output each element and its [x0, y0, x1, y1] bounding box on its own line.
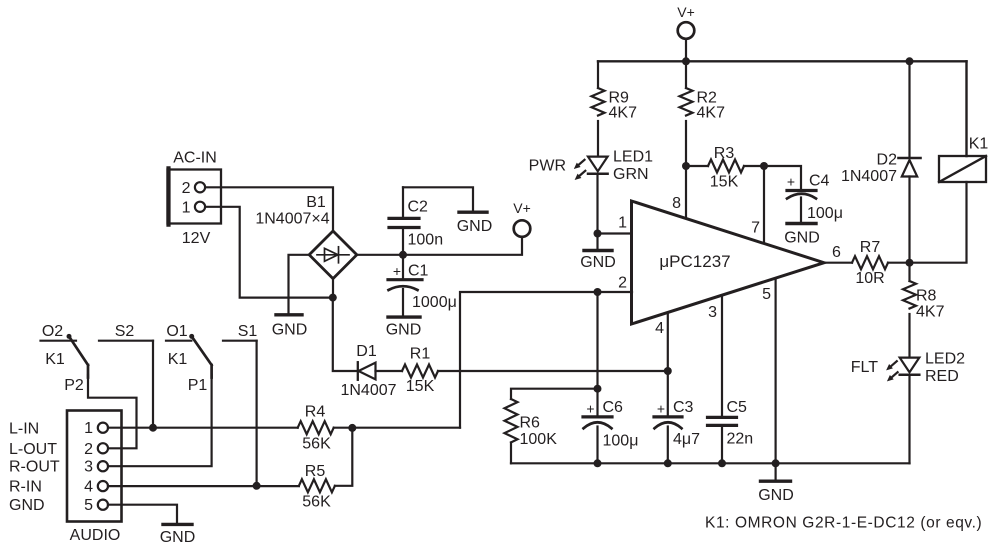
wire S2 down to L-IN line [152, 341, 154, 428]
svg-text:4: 4 [655, 320, 664, 337]
svg-text:LED2: LED2 [925, 351, 965, 368]
svg-text:R1: R1 [410, 346, 431, 363]
wire R2 to R3/pin8 junction [685, 121, 687, 166]
wire L-IN to R4 [108, 427, 298, 429]
svg-text:6: 6 [832, 244, 841, 261]
wire rail down to D2 [908, 61, 910, 157]
junction pin5/GND on rail [772, 459, 780, 467]
svg-text:C5: C5 [727, 399, 748, 416]
svg-text:B1: B1 [306, 194, 326, 211]
wire IC pin 3 down to C5 [721, 296, 723, 416]
svg-text:GND: GND [272, 322, 308, 339]
wire AC pin 2 to bridge top [205, 187, 333, 231]
svg-text:D2: D2 [877, 152, 898, 169]
svg-text:R-IN: R-IN [9, 479, 42, 496]
junction C1/C2 tap [399, 251, 407, 259]
ground below C1 [386, 289, 422, 339]
wire bridge left vertex to ground [289, 255, 310, 313]
svg-text:1N4007: 1N4007 [340, 382, 396, 399]
svg-text:O2: O2 [42, 323, 63, 340]
junction S2 on L-IN [149, 424, 157, 432]
svg-text:GRN: GRN [613, 166, 649, 183]
svg-text:15K: 15K [406, 378, 435, 395]
svg-text:5: 5 [84, 497, 93, 514]
svg-text:S2: S2 [115, 323, 135, 340]
junction C5 on rail [718, 459, 726, 467]
svg-text:+: + [657, 401, 665, 417]
wire top supply rail [598, 60, 967, 62]
junction R3/C4/pin7 [760, 162, 768, 170]
wire C2 top to ground stub [403, 187, 473, 210]
svg-text:10R: 10R [855, 270, 884, 287]
relay K1 coil [939, 136, 988, 183]
svg-text:C1: C1 [408, 263, 429, 280]
wire relay coil bottom to output junction [910, 182, 967, 263]
wire D1 to R1 [376, 370, 403, 372]
junction R2/R3/pin8 [682, 162, 690, 170]
svg-text:C6: C6 [603, 399, 624, 416]
wire P2 pole to AUDIO pin 2 [88, 375, 137, 448]
svg-text:4: 4 [84, 479, 93, 496]
junction C3 on rail [664, 459, 672, 467]
wire pin2 junction down to R6/C6 node [596, 292, 598, 389]
svg-text:O1: O1 [166, 323, 187, 340]
diode D2 1N4007 [841, 152, 921, 186]
svg-text:PWR: PWR [529, 158, 566, 175]
junction R1 line on pin 4 [664, 367, 672, 375]
wire junction down to IC pin 7 [763, 166, 765, 244]
svg-text:R7: R7 [860, 239, 881, 256]
svg-text:L-IN: L-IN [9, 421, 39, 438]
ground below AUDIO pin 5 [160, 524, 196, 546]
svg-text:K1: K1 [969, 136, 989, 153]
junction pin1 node [594, 230, 602, 238]
svg-text:C2: C2 [408, 199, 429, 216]
svg-text:2: 2 [182, 180, 191, 197]
svg-text:R6: R6 [520, 415, 541, 432]
junction S1 on R-IN [253, 482, 261, 490]
resistor R3 [708, 145, 744, 191]
svg-text:FLT: FLT [851, 359, 878, 376]
wire LED2 cathode down to bottom rail [908, 376, 910, 464]
svg-text:2: 2 [84, 441, 93, 458]
wire IC pin 5 down to ground rail [774, 279, 776, 464]
svg-text:4K7: 4K7 [609, 105, 638, 122]
wire rail down to R2 [685, 61, 687, 88]
svg-text:1: 1 [182, 199, 191, 216]
capacitor C3 4u7 [654, 399, 700, 463]
wire rail down to R9 [597, 61, 599, 88]
svg-text:AC-IN: AC-IN [173, 150, 217, 167]
ground at bottom rail [758, 463, 794, 504]
wire junction down to D1 [333, 298, 358, 371]
svg-text:GND: GND [160, 529, 196, 546]
svg-text:μPC1237: μPC1237 [659, 252, 730, 271]
ground right of C2 [457, 212, 493, 235]
svg-text:56K: 56K [302, 494, 331, 511]
svg-text:+: + [787, 174, 795, 190]
svg-text:P1: P1 [188, 377, 208, 394]
svg-text:1: 1 [618, 215, 627, 232]
ground below bridge [272, 315, 308, 339]
wire AC pin 1 to bridge bottom node [205, 207, 333, 298]
diode D1 1N4007 [340, 343, 396, 399]
wire LED1 cathode down to pin 1 node [596, 175, 598, 234]
connector AC-IN 12V [168, 150, 222, 248]
svg-text:5: 5 [762, 286, 771, 303]
capacitor C1 1000u [388, 255, 457, 311]
svg-text:100n: 100n [408, 232, 444, 249]
svg-text:56K: 56K [302, 436, 331, 453]
svg-text:7: 7 [751, 220, 760, 237]
wire pin1 node to IC pin 1 [598, 232, 633, 234]
svg-text:100K: 100K [520, 431, 558, 448]
svg-text:GND: GND [580, 254, 616, 271]
svg-text:8: 8 [672, 195, 681, 212]
wire feed up to IC pin 2 [460, 292, 632, 428]
wire R6 bottom to rail [510, 443, 512, 464]
svg-text:1000μ: 1000μ [412, 294, 457, 311]
resistor R4 [298, 404, 334, 453]
svg-text:3: 3 [708, 304, 717, 321]
junction bridge bottom / AC pin1 [329, 294, 337, 302]
svg-text:3: 3 [84, 459, 93, 476]
svg-text:4K7: 4K7 [916, 304, 945, 321]
wire junction to R3 [686, 165, 708, 167]
wire junction to C4 [764, 166, 801, 189]
wire junction down to IC pin 8 [685, 166, 687, 218]
wire R1 to pin 4 junction [438, 370, 668, 372]
svg-text:L-OUT: L-OUT [9, 441, 57, 458]
svg-text:22n: 22n [727, 431, 754, 448]
svg-text:4K7: 4K7 [697, 105, 726, 122]
svg-text:GND: GND [758, 487, 794, 504]
svg-text:K1: OMRON G2R-1-E-DC12 (or eqv: K1: OMRON G2R-1-E-DC12 (or eqv.) [705, 515, 982, 532]
capacitor C2 100n [389, 187, 443, 255]
wire bottom ground rail [511, 462, 910, 464]
svg-text:1: 1 [84, 420, 93, 437]
svg-text:R3: R3 [714, 145, 735, 162]
svg-text:C4: C4 [809, 173, 830, 190]
wire D2 to output junction [908, 177, 910, 263]
wire R-IN to R5 [108, 485, 299, 487]
wire R8 to LED2 [908, 314, 910, 357]
svg-text:LED1: LED1 [613, 149, 653, 166]
junction C6 on rail [594, 459, 602, 467]
svg-text:RED: RED [925, 368, 959, 385]
resistor R8 [903, 281, 945, 321]
net S1 [223, 323, 257, 341]
svg-text:1N4007: 1N4007 [841, 168, 897, 185]
svg-text:D1: D1 [356, 343, 377, 360]
svg-text:100μ: 100μ [807, 205, 843, 222]
svg-text:K1: K1 [45, 351, 65, 368]
wire V+ terminal to top rail [685, 39, 687, 62]
svg-text:AUDIO: AUDIO [70, 527, 121, 544]
svg-text:R4: R4 [305, 404, 326, 421]
svg-text:R5: R5 [305, 463, 326, 480]
capacitor C4 100u [787, 173, 843, 223]
svg-text:K1: K1 [168, 351, 188, 368]
node V+ (left terminal) [513, 200, 531, 237]
wire output junction down to R8 [908, 263, 910, 281]
junction D2 branch on rail [906, 57, 914, 65]
resistor R1 [402, 346, 438, 396]
svg-text:GND: GND [386, 322, 422, 339]
svg-text:P2: P2 [64, 377, 84, 394]
relay contact O2/P2 (K1) [41, 323, 89, 394]
capacitor C5 22n [708, 399, 754, 463]
node V+ (top supply terminal) [677, 4, 695, 39]
svg-text:+: + [586, 401, 594, 417]
ground below C4 [784, 198, 820, 247]
bridge rectifier B1 1N4007x4 [255, 194, 356, 279]
wire S1 down to R-IN line [256, 341, 258, 486]
svg-text:2: 2 [618, 275, 627, 292]
resistor R2 [680, 88, 726, 122]
ground at pin1 node [580, 234, 616, 272]
resistor R9 [592, 88, 638, 122]
resistor R7 [852, 239, 888, 287]
svg-text:GND: GND [784, 230, 820, 247]
wire IC pin 6 to R7 [824, 262, 852, 264]
wire R4 to feed junction [334, 427, 460, 429]
svg-text:+: + [393, 263, 401, 279]
svg-text:GND: GND [457, 218, 493, 235]
svg-text:C3: C3 [673, 399, 694, 416]
wire R3 to pin7/C4 junction [744, 165, 764, 167]
resistor R5 [299, 463, 335, 511]
svg-text:R-OUT: R-OUT [9, 459, 60, 476]
svg-text:100μ: 100μ [603, 433, 639, 450]
connector AUDIO [67, 411, 122, 545]
svg-text:S1: S1 [238, 323, 258, 340]
svg-text:R8: R8 [916, 288, 937, 305]
svg-text:15K: 15K [710, 174, 739, 191]
svg-text:GND: GND [9, 497, 45, 514]
junction V+ on rail [682, 57, 690, 65]
LED LED1 GRN [574, 149, 653, 184]
wire IC pin 4 down through junction to C3 [667, 313, 669, 415]
net S2 [99, 323, 153, 341]
relay contact O1/P1 (K1) [166, 323, 212, 394]
svg-text:4μ7: 4μ7 [673, 431, 700, 448]
wire R9 to LED1 [597, 121, 599, 156]
wire R6 top link [511, 389, 598, 399]
svg-text:12V: 12V [182, 230, 211, 247]
wire R5 up to feed junction [335, 428, 352, 486]
svg-text:V+: V+ [513, 200, 531, 216]
wire bridge bottom vertex to AC return junction [332, 279, 334, 298]
wire P1 pole to AUDIO pin 3 [108, 375, 211, 466]
LED LED2 RED [886, 351, 965, 386]
resistor R6 [505, 399, 558, 448]
junction output node [906, 259, 914, 267]
wire bridge right vertex to V+ node [357, 237, 522, 255]
junction R4/R5 feed [348, 424, 356, 432]
svg-text:V+: V+ [677, 4, 695, 20]
wire R7 to output junction [888, 262, 910, 264]
op-amp U1 uPC1237 [632, 201, 825, 324]
capacitor C6 100u [583, 389, 638, 464]
junction pin2 / C6 branch [594, 288, 602, 296]
wire GND pin 5 stub [108, 505, 177, 523]
wire rail corner down to relay coil [965, 61, 967, 156]
svg-text:1N4007×4: 1N4007×4 [255, 211, 329, 228]
junction R6 top on C6 branch [594, 385, 602, 393]
